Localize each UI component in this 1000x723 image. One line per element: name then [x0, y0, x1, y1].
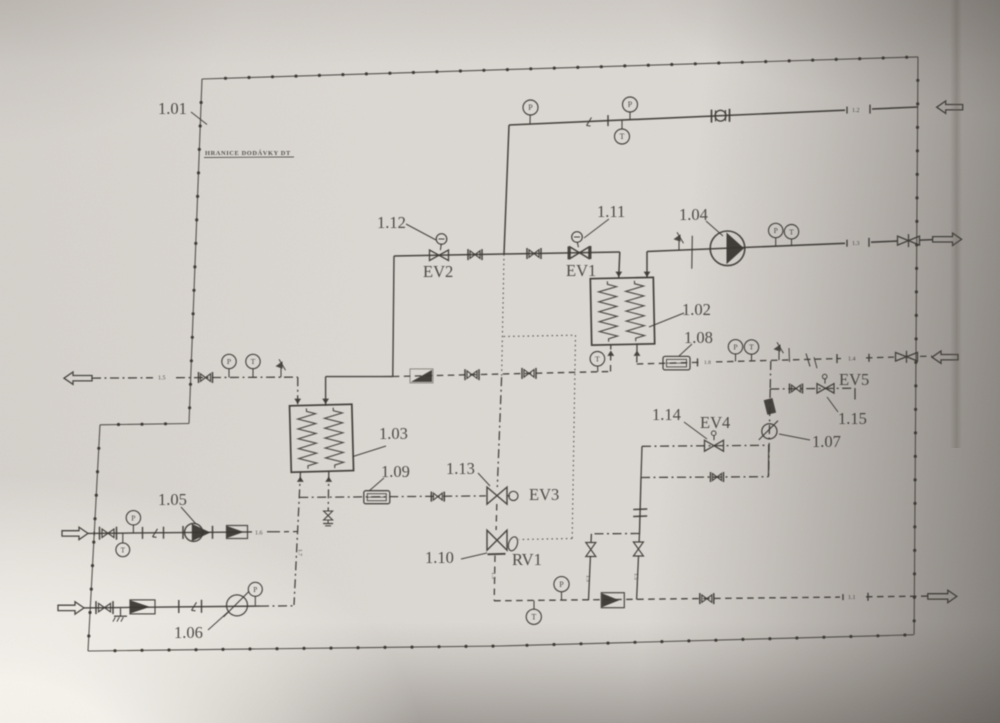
thermowell bar on line 1.4	[788, 348, 791, 362]
pressure gauge P on line 1.2 left	[523, 100, 538, 124]
svg-text:1.08: 1.08	[684, 328, 713, 347]
pump 1.05	[183, 523, 213, 541]
pipe line 1.06 row solid	[84, 606, 260, 608]
boundary valve on line 1.4	[896, 351, 918, 363]
control valve EV2	[430, 250, 449, 261]
svg-text:1.6: 1.6	[255, 531, 263, 537]
flange tick on line 1.4	[836, 354, 838, 363]
EV5 actuator	[822, 374, 827, 383]
svg-text:1.5: 1.5	[633, 573, 639, 580]
EV5 branch end stub	[854, 388, 856, 399]
EV3 actuator	[507, 491, 518, 500]
svg-text:1.07: 1.07	[812, 432, 841, 451]
label 1.03 leader	[353, 446, 386, 457]
label 1.07 leader	[779, 434, 810, 440]
HX 1.03 bottom-right arrowhead	[325, 477, 332, 482]
column to valve EV3	[497, 377, 501, 487]
flange tick a on 1.6	[142, 527, 144, 539]
pressure gauge P on line 1.4	[728, 340, 742, 362]
label 1.11 leader	[584, 219, 609, 238]
svg-text:1.09: 1.09	[381, 462, 410, 481]
filter 1.08	[663, 356, 690, 370]
svg-text:1.06: 1.06	[174, 623, 203, 642]
svg-text:RV1: RV1	[512, 550, 542, 569]
flange-valve cluster on 1.06 row	[96, 601, 113, 614]
line number 1.2	[847, 105, 870, 114]
flange pair mid 2	[522, 368, 536, 379]
pressure gauge P on 1.06 row	[248, 582, 262, 605]
svg-text:1.01: 1.01	[158, 99, 187, 118]
flange tick b on 1.6	[163, 527, 165, 539]
svg-text:1.11: 1.11	[597, 202, 625, 221]
svg-text:P: P	[559, 580, 564, 589]
riser EV2 branch down to HX 1.03 line	[393, 256, 394, 377]
flange pair on pump row mid	[527, 248, 541, 259]
pipe EV3 to RV1	[495, 504, 498, 530]
pipe EV2 branch horizontal	[394, 252, 620, 256]
label 1.02 leader	[649, 313, 684, 327]
label 1.06 leader	[208, 612, 228, 630]
pipe return line left segment	[92, 377, 298, 378]
boundary border, left edge lower segment	[87, 425, 100, 651]
check valve on bottom row	[601, 593, 624, 608]
check valve on mid segment	[410, 369, 433, 383]
svg-text:T: T	[121, 546, 126, 554]
pressure gauge P on bottom row	[554, 577, 569, 601]
right drop with valve	[633, 534, 643, 600]
vent slash on 1.06 row	[192, 602, 197, 611]
EV1 actuator	[572, 232, 583, 248]
heat exchanger 1.02	[590, 277, 654, 345]
svg-text:T: T	[789, 227, 794, 236]
orifice fitting on line 1.2	[712, 109, 730, 123]
check valve on 1.06 row	[130, 600, 155, 614]
HX 1.03 bottom-left column (line 1.7)	[294, 471, 301, 605]
label 1.04 leader	[706, 221, 723, 236]
flange pair on left return	[199, 372, 213, 383]
temperature gauge T after pump	[784, 225, 798, 246]
pipe below RV1	[493, 556, 496, 601]
vent tick on line 1.2	[587, 118, 592, 127]
flange pair on bypass	[711, 472, 724, 482]
HX 1.02 outlet arrowhead	[644, 272, 651, 277]
EV2 actuator	[436, 234, 447, 251]
dotted instrument line from pump row	[502, 254, 504, 377]
inlet arrow line 1.4 (from right)	[932, 351, 958, 363]
HX 1.02 bottom-left arrowhead	[607, 351, 614, 356]
control valve EV1	[569, 246, 591, 259]
pressure reducing valve RV1	[487, 530, 507, 554]
drain under HX 1.03	[323, 511, 333, 526]
pipe line 1.4 to arrow	[920, 355, 932, 357]
svg-text:P: P	[253, 585, 257, 594]
svg-text:T: T	[595, 354, 600, 363]
svg-text:T: T	[620, 132, 625, 141]
svg-text:1.04: 1.04	[679, 205, 708, 224]
pipe mid dashed segment	[393, 372, 611, 377]
svg-text:1.05: 1.05	[158, 490, 187, 509]
valve EV5	[817, 384, 834, 394]
boundary note HRANICE DODAVKY DT	[204, 149, 294, 158]
svg-text:P: P	[131, 513, 135, 522]
flange pair on bottom row	[700, 593, 714, 604]
HX 1.03 bottom-left arrowhead	[297, 477, 304, 482]
label 1.09 leader	[369, 478, 384, 491]
svg-text:1.7: 1.7	[297, 549, 303, 556]
svg-text:1.02: 1.02	[682, 300, 711, 319]
spade bar at pump suction	[691, 236, 694, 269]
valve EV3	[487, 487, 507, 504]
pipe 1.06 dash-dot tail	[260, 605, 294, 607]
pipe HX1.02 outlet to pump	[647, 241, 897, 251]
svg-text:HRANICE DODÁVKY DT: HRANICE DODÁVKY DT	[205, 149, 291, 157]
HX 1.03 bottom-right port	[327, 471, 330, 511]
drain under 1.06 row	[113, 608, 127, 621]
flange pair mid 1	[465, 369, 479, 380]
HX 1.02 bottom-right port	[636, 345, 638, 364]
boundary border, left edge upper segment	[188, 79, 203, 424]
flange pair on 1.09 line	[431, 492, 444, 502]
union flanges on column	[633, 509, 647, 517]
tee riser down from line 1.4	[769, 361, 772, 389]
svg-text:1.15: 1.15	[838, 409, 867, 428]
pipe HX 1.03 to EV2 riser	[326, 376, 393, 378]
flow glass 1.06	[224, 592, 249, 617]
svg-text:EV2: EV2	[423, 262, 453, 281]
bypass right column	[768, 445, 770, 476]
svg-text:1.5: 1.5	[585, 575, 591, 582]
relief vent on line 1.4	[774, 342, 784, 360]
inlet arrow bottom-left (from left)	[58, 602, 84, 614]
svg-text:1.2: 1.2	[852, 108, 860, 114]
riser from line 1.2 down to pump row	[504, 125, 509, 254]
boundary border, right edge	[913, 57, 920, 635]
svg-text:1.03: 1.03	[379, 424, 408, 443]
label 1.13 leader	[478, 473, 490, 486]
HX 1.03 top-right riser	[325, 377, 327, 406]
svg-text:1.8: 1.8	[704, 360, 711, 366]
EV4 actuator	[711, 431, 716, 440]
pipe line to filter 1.09	[299, 496, 486, 498]
relief vent at pump suction	[674, 232, 684, 250]
valve EV4	[705, 440, 724, 451]
temperature gauge T before HX 1.02	[590, 352, 605, 372]
vent slash on 1.6	[153, 529, 158, 538]
column to flow glass 1.07	[769, 389, 771, 477]
label 1.14 leader	[684, 422, 707, 439]
svg-text:1.4: 1.4	[848, 356, 856, 362]
HX 1.02 outlet riser	[646, 252, 648, 279]
outlet arrow line 1.3 (to right)	[933, 233, 962, 245]
flange pair EV5	[790, 384, 803, 394]
inlet arrow line 1.6 (from left)	[62, 527, 88, 539]
HX 1.03 top-right arrowhead	[322, 399, 329, 404]
HX 1.02 inlet riser	[619, 252, 620, 278]
pipe line 1.6 solid	[88, 532, 252, 534]
pressure gauge P after pump	[769, 223, 783, 246]
svg-text:P: P	[528, 103, 533, 112]
column below bypass	[640, 478, 642, 534]
label 1.10 leader	[461, 553, 487, 559]
label 1.08 leader	[679, 344, 692, 356]
boundary valve on line 1.3	[898, 234, 920, 247]
tee on column	[591, 533, 639, 535]
temperature gauge T on line 1.4	[744, 340, 758, 361]
svg-text:1.12: 1.12	[377, 213, 406, 232]
line number 1.4	[848, 354, 869, 363]
heat exchanger 1.03	[290, 404, 354, 472]
RV1 actuator	[507, 536, 520, 552]
label 1.15 leader	[827, 397, 838, 412]
svg-text:P: P	[227, 357, 231, 366]
svg-text:1.10: 1.10	[425, 548, 454, 567]
inlet arrow line 1.2 (from right)	[937, 101, 963, 113]
label 1.01 leader	[191, 112, 207, 125]
pressure gauge P on 1.6	[126, 511, 140, 533]
svg-text:1.13: 1.13	[446, 459, 475, 478]
svg-text:T: T	[251, 357, 256, 366]
pipe after boundary valve to arrow	[920, 239, 933, 242]
pipe EV5 branch	[770, 387, 855, 390]
filter 1.09	[364, 491, 390, 504]
flange tick b on 1.06 row	[201, 600, 203, 613]
line number 1.3	[847, 238, 869, 247]
temperature gauge T on left return	[246, 354, 260, 377]
svg-text:P: P	[774, 226, 778, 235]
left drop with valve	[586, 534, 596, 600]
svg-text:EV1: EV1	[566, 261, 596, 280]
flow glass 1.07	[759, 421, 778, 440]
boundary border, left jog horizontal	[100, 422, 189, 426]
check valve on 1.6	[227, 526, 248, 539]
pump 1.04	[710, 231, 745, 266]
svg-text:1.14: 1.14	[652, 405, 681, 424]
pressure gauge P on line 1.2	[623, 97, 638, 120]
label 1.05 leader	[181, 507, 196, 524]
boundary border, bottom edge	[88, 633, 914, 652]
svg-text:EV4: EV4	[700, 413, 730, 432]
relief vent on left return	[276, 359, 286, 377]
HX 1.03 top-left port riser	[297, 377, 299, 406]
flange tick after filter	[697, 358, 699, 366]
dotted enclosure right edge	[572, 335, 575, 538]
flange-valve cluster on 1.6	[100, 527, 117, 540]
pipe bottom row	[494, 596, 928, 601]
HX 1.02 bottom-left port	[610, 345, 612, 372]
flange tick a on 1.06 row	[178, 600, 180, 613]
svg-text:T: T	[531, 612, 536, 621]
inline device dark body 1.07	[764, 398, 776, 415]
pipe EV4 bypass row	[641, 476, 769, 479]
temperature gauge T on bottom row	[526, 601, 541, 625]
temperature gauge T under line 1.2	[615, 120, 630, 144]
line number 1.1	[843, 593, 868, 601]
flange tick on line 1.2	[607, 115, 609, 126]
svg-text:1.3: 1.3	[852, 241, 860, 247]
pipe line 1.4 right segment	[637, 357, 894, 364]
HX 1.02 bottom-right arrowhead	[634, 351, 641, 356]
HX 1.03 top-left arrowhead	[294, 399, 301, 404]
flange pair on pump row left	[468, 249, 482, 260]
svg-text:P: P	[733, 342, 737, 351]
svg-text:EV3: EV3	[529, 485, 559, 504]
temperature gauge T under 1.6	[116, 533, 130, 557]
crossing slash on line 1.4	[806, 354, 817, 369]
boundary border, top edge (battery limit)	[202, 56, 918, 80]
svg-text:1.5: 1.5	[158, 376, 166, 382]
dotted enclosure top edge	[504, 335, 576, 336]
pipe line 1.2 (top header)	[509, 107, 918, 125]
boundary crossing tick 1.6	[93, 531, 95, 535]
pipe EV4 row	[642, 445, 769, 446]
outlet arrow left (to left)	[64, 372, 92, 384]
junction node row1-riser on pump row	[503, 253, 505, 255]
outlet arrow bottom (to right)	[928, 590, 957, 602]
HX 1.02 inlet arrowhead	[615, 272, 622, 277]
pipe 1.6 dash-dot tail	[267, 531, 298, 533]
svg-text:T: T	[749, 343, 754, 352]
bypass left column	[641, 446, 642, 477]
svg-text:EV5: EV5	[839, 370, 869, 389]
svg-text:1.5: 1.5	[490, 572, 496, 579]
dotted enclosure bottom edge	[519, 539, 572, 540]
svg-text:P: P	[628, 100, 633, 109]
pressure gauge P on left return	[222, 354, 236, 377]
label 1.12 leader	[406, 224, 436, 240]
svg-text:1.1: 1.1	[848, 595, 856, 601]
